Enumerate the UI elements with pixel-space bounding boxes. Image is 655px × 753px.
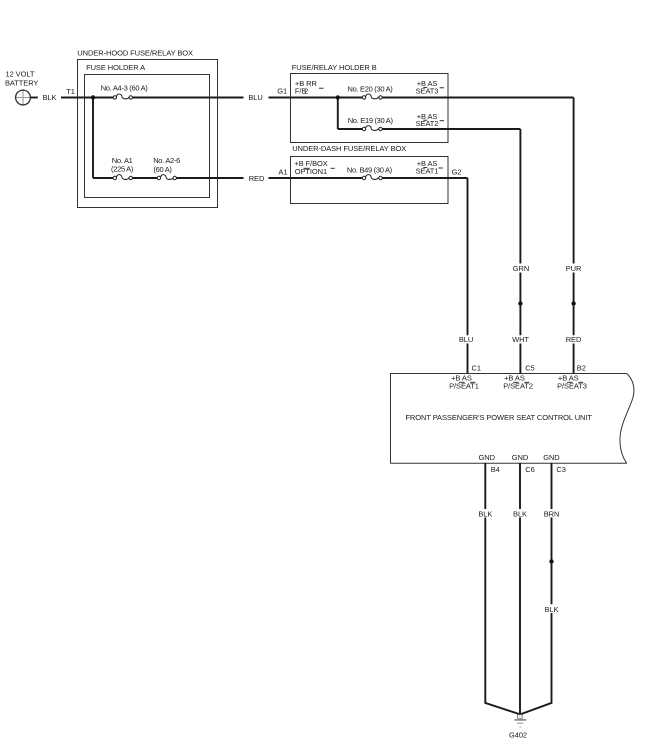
svg-text:No. E20 (30 A): No. E20 (30 A): [348, 85, 394, 94]
svg-text:F/B2: F/B2: [295, 87, 308, 96]
svg-text:G402: G402: [509, 731, 527, 740]
svg-text:C3: C3: [556, 465, 565, 474]
svg-text:RED: RED: [249, 174, 265, 183]
svg-text:UNDER-DASH FUSE/RELAY BOX: UNDER-DASH FUSE/RELAY BOX: [292, 144, 406, 153]
svg-text:(225 A): (225 A): [111, 165, 134, 174]
svg-text:PUR: PUR: [566, 264, 582, 273]
svg-text:No. E19 (30 A): No. E19 (30 A): [348, 116, 394, 125]
svg-text:A1: A1: [278, 167, 287, 176]
svg-text:BLK: BLK: [478, 509, 492, 518]
svg-text:C6: C6: [525, 465, 534, 474]
svg-text:GRN: GRN: [513, 264, 529, 273]
svg-text:BATTERY: BATTERY: [5, 79, 38, 88]
svg-text:P/SEAT1: P/SEAT1: [449, 381, 479, 390]
svg-text:12 VOLT: 12 VOLT: [6, 69, 35, 78]
svg-text:C1: C1: [472, 364, 481, 373]
svg-text:FUSE HOLDER A: FUSE HOLDER A: [86, 63, 145, 72]
svg-text:GND: GND: [543, 453, 560, 462]
svg-text:FUSE/RELAY HOLDER B: FUSE/RELAY HOLDER B: [292, 63, 377, 72]
svg-text:B4: B4: [491, 465, 500, 474]
svg-text:FRONT PASSENGER'S POWER SEAT C: FRONT PASSENGER'S POWER SEAT CONTROL UNI…: [405, 413, 592, 422]
svg-text:GND: GND: [479, 453, 496, 462]
svg-text:C5: C5: [525, 364, 534, 373]
svg-text:BLK: BLK: [43, 93, 57, 102]
svg-text:BLU: BLU: [459, 335, 473, 344]
svg-text:OPTION1: OPTION1: [295, 167, 327, 176]
svg-text:WHT: WHT: [512, 335, 529, 344]
svg-text:(60 A): (60 A): [153, 165, 172, 174]
svg-text:GND: GND: [512, 453, 529, 462]
svg-text:BLU: BLU: [248, 93, 262, 102]
svg-text:No. B49 (30 A): No. B49 (30 A): [347, 166, 393, 175]
svg-text:No. A1: No. A1: [112, 156, 133, 165]
svg-text:P/SEAT2: P/SEAT2: [503, 381, 533, 390]
svg-text:G2: G2: [452, 167, 462, 176]
svg-text:BLK: BLK: [545, 605, 559, 614]
svg-text:B2: B2: [577, 364, 586, 373]
svg-text:BLK: BLK: [513, 509, 527, 518]
svg-text:RED: RED: [566, 335, 582, 344]
svg-text:G1: G1: [277, 87, 287, 96]
svg-text:BRN: BRN: [544, 509, 560, 518]
svg-text:T1: T1: [66, 87, 75, 96]
svg-text:P/SEAT3: P/SEAT3: [557, 381, 587, 390]
svg-text:UNDER-HOOD FUSE/RELAY BOX: UNDER-HOOD FUSE/RELAY BOX: [77, 49, 193, 58]
svg-text:No. A4-3 (60 A): No. A4-3 (60 A): [101, 84, 149, 93]
